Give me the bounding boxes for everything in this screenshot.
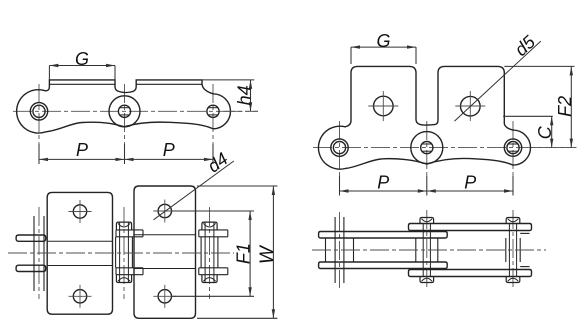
view3 plate A1 bend lines [47, 241, 112, 265]
svg-text:G: G [376, 31, 390, 51]
view1 roller 1 outer [30, 103, 47, 120]
view3 dim F1 line [249, 211, 251, 296]
view1 joint2 plate-end circle [109, 96, 140, 127]
view2 label P left [377, 172, 389, 192]
view4 centerline pin3 vertical [512, 210, 514, 290]
view3 centerline pin2 vertical [123, 207, 125, 299]
view1 pin 2 circle [118, 105, 130, 117]
svg-text:P: P [163, 140, 175, 160]
view3 plate A1 hole bottom [73, 290, 86, 303]
view2 centerline pin2 vertical [426, 121, 428, 196]
view1 centerline pin3 vertical [212, 84, 214, 164]
view3 centerline pin3 vertical [209, 207, 211, 299]
view2 label d5 [511, 31, 540, 60]
view1 centerline pin1 vertical [38, 84, 40, 164]
view3 outer plate stub bottom [16, 265, 46, 271]
view2 label F2 [555, 96, 575, 117]
view4 pin3 assembly [506, 218, 520, 283]
view2 dim F2 extension top [504, 65, 574, 67]
view1 dim h4 ext centerline [224, 110, 259, 112]
view2 roller 3 outer [504, 139, 521, 156]
view3 centerline horizontal [8, 252, 234, 254]
view3 label d4 [204, 149, 232, 177]
view2 leader d5 [455, 41, 541, 121]
view2 dim F2 arrows [570, 66, 573, 147]
view2 centerline pin1 vertical [339, 121, 341, 196]
view2 label C [535, 125, 555, 139]
view2 dim G extension left [350, 47, 352, 64]
view2 dim P line [340, 190, 514, 192]
view3 pin1 shaft [34, 216, 44, 291]
view1 dim h4 arrow top [249, 80, 252, 89]
view1 dim h4 line [250, 80, 252, 111]
view3 plate A1 hole top cross [69, 200, 92, 223]
view3 plate A2 hole bottom [158, 290, 171, 303]
view1 flat plate 2 lower line [136, 83, 202, 85]
view1 dim G arrow right [106, 64, 115, 67]
view3 label F1 [233, 243, 253, 264]
view1 centerline pin2 vertical [124, 84, 126, 164]
view1 pin 3 circle [207, 105, 219, 117]
svg-text:C: C [535, 125, 555, 139]
view2 dim G arrow right [407, 45, 416, 48]
view3 dim W ext top [197, 185, 278, 187]
svg-text:d5: d5 [511, 31, 540, 60]
view2 pin 3 circle [507, 142, 519, 154]
view2 label P right [464, 172, 476, 192]
view2 dim C extension top [503, 115, 553, 117]
view2 dim G line [351, 46, 416, 48]
view3 plate A2 bend lines [134, 235, 196, 269]
view1 dim G arrow left [49, 64, 58, 67]
view2 centerline horizontal [313, 147, 577, 149]
view2 dim G extension right [415, 47, 417, 64]
view4 next link inner plate stubs [520, 233, 529, 266]
view2 label G [376, 31, 390, 51]
view1 dim G line [49, 65, 115, 67]
view3 pin2 assembly [116, 222, 143, 282]
view1 link plates outline [17, 80, 231, 133]
view3 dim W line [272, 186, 274, 318]
view3 pin3 assembly [199, 222, 228, 282]
view2 dim P arrows [340, 189, 514, 192]
view3 plate A2 hole top [158, 204, 171, 217]
view2 link plates and tabs outline [318, 66, 530, 169]
view2 tab1 hole cross [368, 91, 398, 121]
view2 tab2 hole [461, 96, 481, 116]
view1 flat plate 1 lower line [49, 83, 115, 85]
view2 dim F2 line [570, 66, 572, 147]
svg-text:h4: h4 [234, 85, 254, 105]
view2 pin 2 circle [421, 142, 433, 154]
view3 plate A2 hole top cross [153, 200, 176, 223]
view3 dim F1 ext bottom [172, 295, 254, 297]
view3 dim W arrows [272, 186, 275, 318]
view2 tab2 hole cross [455, 91, 485, 121]
view3 label W [257, 244, 278, 264]
view4 centerline pin2 vertical [426, 210, 428, 290]
view2 joint2 plate-end circle [411, 132, 443, 164]
view3 dim W ext bottom [197, 317, 278, 319]
svg-text:F2: F2 [555, 96, 575, 117]
view1 label P right [163, 140, 175, 160]
view1 dim P line [39, 158, 213, 160]
view2 roller 1 outer [331, 139, 348, 156]
view1 roller 1 inner [33, 105, 45, 117]
view3 leader d4 [154, 161, 234, 220]
svg-text:F1: F1 [233, 243, 253, 264]
view3 outer plate stub top [16, 235, 46, 241]
view1 dim G extension right [114, 66, 116, 80]
view1 centerline horizontal [13, 110, 258, 112]
view3 attachment plate A2 [134, 186, 196, 318]
view1 dim h4 arrow bottom [249, 102, 252, 111]
view4 pin1 bushing edges [326, 238, 354, 262]
view3 attachment plate A1 [47, 192, 112, 314]
view4 outer plate top [409, 224, 532, 231]
view1 dim G extension left [48, 66, 50, 80]
svg-text:P: P [76, 140, 88, 160]
view1 dim h4 extension top [202, 79, 254, 81]
view1 label P left [76, 140, 88, 160]
svg-text:G: G [75, 49, 89, 69]
view1 label h4 [234, 85, 254, 105]
view4 outer plate bottom [409, 270, 532, 277]
view3 plate A2 hole bottom cross [153, 285, 176, 308]
view3 dim F1 ext top [172, 210, 254, 212]
view2 dim F2 ext centerline [531, 147, 577, 149]
view3 plate A1 hole top [73, 205, 86, 218]
svg-text:P: P [377, 172, 389, 192]
view2 dim C line [551, 116, 553, 147]
view1 label G [75, 49, 89, 69]
view1 dim P arrows [39, 158, 213, 161]
view4 centerline pin1 vertical [339, 212, 341, 288]
view3 dim F1 arrows [248, 211, 251, 296]
view4 pin1 shaft [335, 217, 344, 283]
view2 dim G arrow left [351, 45, 360, 48]
view2 dim C arrows [550, 116, 553, 147]
view4 inner plate bottom [319, 262, 448, 269]
svg-text:d4: d4 [204, 149, 232, 177]
view2 roller 1 inner [333, 142, 345, 154]
view4 pin2 assembly [416, 218, 438, 283]
view3 centerline pin1 vertical [38, 207, 40, 299]
view2 centerline pin3 vertical [512, 121, 514, 196]
svg-text:W: W [257, 244, 278, 264]
svg-text:P: P [464, 172, 476, 192]
view4 inner plate top [319, 232, 448, 239]
view2 tab1 hole [374, 96, 394, 116]
view3 plate A1 hole bottom cross [69, 285, 92, 308]
view4 centerline horizontal [312, 249, 546, 251]
